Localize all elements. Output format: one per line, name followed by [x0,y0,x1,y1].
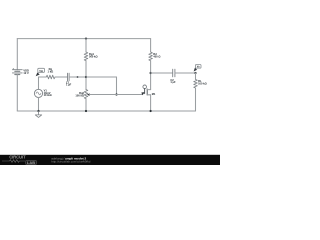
svg-text:LAB: LAB [27,160,35,165]
svg-text:CIRCUIT: CIRCUIT [9,155,26,160]
transistor M1 gate bar [144,89,146,94]
resistor RL 100k [194,79,198,88]
wire Rg2 bottom [85,99,87,111]
transistor M1 source jog [147,94,150,96]
wire wiper to gate [90,94,143,96]
resistor Rd 400 [149,52,153,61]
battery V2 VDD [12,70,22,75]
ground [35,111,41,117]
capacitor C1 [68,73,70,81]
wire RL top [195,73,197,79]
flag VIN pointer [36,72,40,76]
svg-text:12 V: 12 V [23,71,29,75]
flag VIN box [38,68,45,72]
potentiometer Rg2 wiper arrow [87,93,90,96]
wire jog down [116,77,118,95]
wire Rd bottom to drain [150,61,152,90]
wire Rg1 bottom to node A [85,61,87,90]
junction top rail node [85,38,87,40]
wire source down [150,95,152,111]
svg-text:Vin: Vin [39,69,43,73]
wire V1 bottom [38,98,40,112]
wire node A to jog [86,76,117,78]
resistor Rg 1k [46,75,55,79]
wire input row left [39,76,47,78]
resistor Rg1 500k [84,52,88,61]
junction output node [194,72,196,74]
logo resistor squiggle [2,160,25,163]
transistor M1 gate circle [143,85,147,89]
wire RL bottom [195,88,197,111]
potentiometer Rg2 100k [84,90,88,99]
svg-text:100 kΩ: 100 kΩ [198,82,207,86]
svg-text:100 kΩ: 100 kΩ [75,93,84,97]
junction Rg2 ground rail [85,110,87,112]
flag Vout box [195,65,201,69]
junction V1-ground [37,110,39,112]
junction input dot [77,76,79,78]
wire drain top corner [150,39,152,52]
svg-text:http://circuitlab.com/c/ua4t9f: http://circuitlab.com/c/ua4t9fkd [51,160,90,164]
capacitor C2 [173,69,175,77]
svg-text:M1: M1 [152,92,156,96]
transistor M1 channel bar [146,89,148,95]
wire input row right [69,76,86,78]
transistor M1 gate arrow [141,92,145,95]
wire drain to C2 [151,72,173,74]
wire left VDD vertical lower [16,75,18,112]
wire V1 top [38,77,40,89]
wire left VDD vertical upper [16,39,18,70]
footer bar [0,155,220,165]
source V1 sine [36,92,41,95]
svg-text:500 kΩ: 500 kΩ [89,54,98,58]
logo LAB box [26,160,37,164]
wire Rg1 top [85,39,87,52]
svg-text:10 kHz: 10 kHz [44,93,53,97]
junction gate wire [115,93,117,95]
svg-text:1 kΩ: 1 kΩ [48,70,54,74]
wire C2 to output [175,72,196,74]
junction source rail [150,110,152,112]
transistor M1 drain jog [147,89,150,91]
flag Vout pointer [194,68,198,72]
svg-text:1 µF: 1 µF [66,83,72,87]
wire top rail [17,38,150,40]
svg-text:1 µF: 1 µF [170,80,176,84]
junction drain node [150,72,152,74]
wire input row mid [55,76,67,78]
source V1 circle [34,89,42,97]
svg-text:400 Ω: 400 Ω [153,54,160,58]
junction node A [85,76,87,78]
wire bottom rail [17,110,195,112]
